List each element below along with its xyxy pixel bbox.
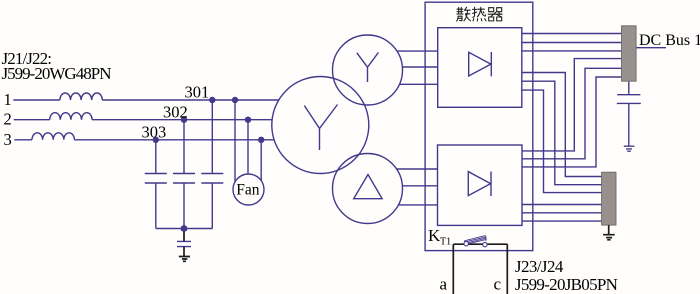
wire U2 out3 to bus1 (522, 77, 622, 167)
wire fan2 (247, 120, 249, 174)
wire terminal a (452, 244, 454, 294)
capacitor CG plates (177, 241, 191, 246)
wire U1 out4 to bus2 (522, 73, 602, 177)
svg-text:301: 301 (185, 83, 210, 102)
svg-text:a: a (440, 275, 448, 294)
wire U1 out5 to bus2 (522, 81, 602, 185)
wire capB branch (183, 120, 185, 174)
wire CG stem lower (183, 247, 185, 257)
wire capC branch (211, 100, 213, 174)
ground G1 (DC bus) (624, 146, 635, 151)
bus bar 2 (602, 172, 616, 225)
node collector (181, 225, 188, 232)
switch contact left (464, 242, 468, 246)
glyph re (473, 7, 487, 21)
ground G3 (bus2) (603, 235, 615, 240)
glyph qi (488, 8, 502, 21)
wire capC lower (211, 183, 213, 229)
wire U1 out3 to bus1 (522, 50, 622, 52)
wire U2 out4 to bus2 (522, 204, 602, 206)
wire phase2 left segment (14, 119, 50, 121)
inductor L2 (50, 113, 92, 120)
wire CG stem upper (183, 229, 185, 242)
svg-text:303: 303 (142, 122, 167, 141)
switch KT1 blade (464, 236, 486, 245)
bus bar 1 (622, 26, 637, 81)
node 301-fan (232, 97, 238, 103)
node 302-fan (245, 117, 251, 123)
svg-text:J23/J24: J23/J24 (515, 257, 564, 276)
wire U2 out6 to bus2 (522, 220, 602, 222)
wye symbol primary (304, 105, 337, 151)
svg-text:T1: T1 (440, 237, 451, 248)
node 303-capA (153, 137, 159, 143)
wire phase1 left segment (13, 99, 60, 101)
svg-text:3: 3 (4, 130, 12, 149)
wire terminal c (506, 244, 508, 294)
capacitor C5 (617, 95, 641, 104)
wire sec2 out b (402, 185, 437, 187)
label heatsink (hand-drawn CJK) (457, 7, 503, 21)
wire sec1 out c (399, 83, 437, 85)
wire phase1 to transformer (102, 99, 278, 101)
wire sec1 out a (397, 50, 438, 52)
wire U2 out1 to bus1 (522, 59, 622, 151)
svg-text:DC Bus 1: DC Bus 1 (639, 32, 700, 49)
wire sec2 out a (397, 168, 438, 170)
svg-text:J599-20WG48PN: J599-20WG48PN (2, 64, 112, 83)
wye symbol secondary1 (357, 53, 379, 83)
svg-text:c: c (494, 275, 502, 294)
rectifier U1 box (438, 28, 522, 108)
wire capA branch (155, 140, 157, 174)
inductor L1 (60, 93, 102, 100)
wire phase3 left segment (14, 139, 32, 141)
wire phase2 to transformer (92, 119, 272, 121)
wire DC Bus 1 terminal (636, 47, 666, 49)
rectifier U2 box (438, 145, 523, 225)
delta symbol secondary2 (354, 175, 382, 199)
capacitor CC (201, 174, 223, 184)
svg-text:J599-20JB05PN: J599-20JB05PN (515, 275, 618, 294)
wire capA lower (155, 183, 157, 229)
wire bus1 to cap (628, 81, 630, 95)
transformer primary circle (272, 77, 369, 174)
wire phase3 to transformer (74, 139, 274, 141)
svg-text:Fan: Fan (236, 181, 259, 198)
svg-text:1: 1 (4, 90, 12, 109)
wire bus2 ground stem (608, 225, 610, 235)
inductor L3 (32, 133, 74, 140)
node 303-fan (258, 137, 264, 143)
switch contact right (483, 242, 487, 246)
glyph san (457, 7, 471, 21)
wire sec2 out c (398, 204, 437, 206)
diode symbol U1 (469, 52, 492, 76)
wire fan3 (260, 140, 262, 181)
wire collector (156, 228, 213, 230)
heatsink outline (425, 2, 533, 250)
fan circle (233, 174, 264, 205)
wire U1 out2 to bus1 (522, 42, 622, 44)
wire U1 out6 to bus2 (522, 90, 602, 193)
wire U2 out2 to bus1 (522, 68, 622, 159)
capacitor CB (173, 174, 195, 184)
wire sec1 out b (402, 66, 437, 68)
wire U1 out1 to bus1 (522, 33, 622, 35)
diode symbol U2 (468, 172, 491, 197)
node 302-capB (181, 117, 187, 123)
svg-text:2: 2 (4, 110, 12, 129)
wire fan1 (234, 100, 236, 182)
svg-text:302: 302 (163, 102, 188, 121)
wire U2 out5 to bus2 (522, 212, 602, 214)
ground G2 (input filter) (179, 257, 190, 262)
wire cap to ground (628, 103, 630, 146)
wire capB lower (183, 183, 185, 229)
node 301-capC (209, 97, 215, 103)
wire switch horizontal (453, 243, 507, 245)
capacitor CA (145, 174, 167, 184)
transformer secondary1 circle (333, 35, 403, 105)
transformer secondary2 circle (333, 154, 403, 224)
